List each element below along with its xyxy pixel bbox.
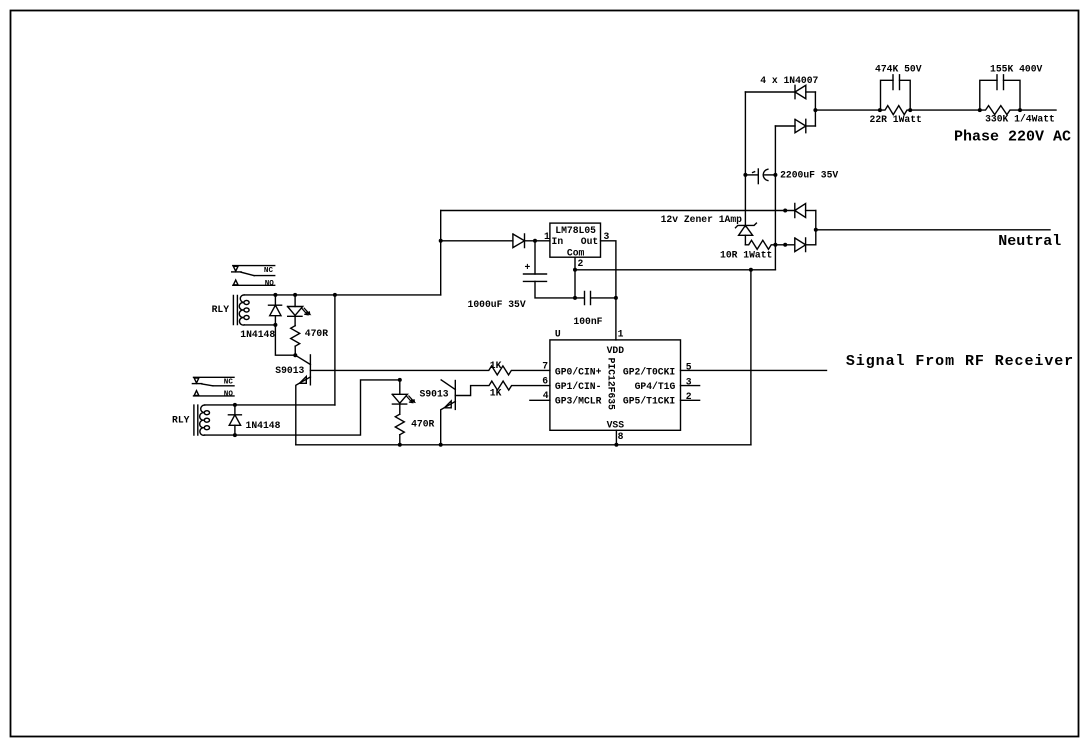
- svg-text:470R: 470R: [411, 419, 434, 430]
- svg-text:3: 3: [604, 231, 610, 242]
- svg-text:4 x 1N4007: 4 x 1N4007: [760, 75, 818, 86]
- svg-text:155K 400V: 155K 400V: [990, 63, 1043, 74]
- svg-text:U: U: [555, 328, 561, 339]
- svg-text:3: 3: [686, 377, 692, 388]
- svg-text:NC: NC: [224, 378, 234, 386]
- svg-text:S9013: S9013: [275, 365, 304, 376]
- svg-text:330K 1/4Watt: 330K 1/4Watt: [985, 113, 1055, 124]
- svg-text:NO: NO: [265, 280, 275, 288]
- svg-text:NC: NC: [264, 267, 274, 275]
- svg-text:8: 8: [618, 431, 624, 442]
- svg-text:+: +: [525, 262, 531, 273]
- svg-text:7: 7: [542, 361, 548, 372]
- svg-text:RLY: RLY: [172, 415, 190, 426]
- svg-text:PIC12F635: PIC12F635: [605, 358, 616, 411]
- svg-text:VSS: VSS: [607, 419, 625, 430]
- svg-text:1: 1: [544, 231, 550, 242]
- svg-text:Signal From RF Receiver: Signal From RF Receiver: [846, 353, 1074, 370]
- svg-text:LM78L05: LM78L05: [555, 225, 596, 236]
- svg-text:2: 2: [578, 258, 584, 269]
- svg-text:6: 6: [542, 376, 548, 387]
- svg-text:GP3/MCLR: GP3/MCLR: [555, 396, 602, 407]
- svg-text:NO: NO: [224, 391, 234, 399]
- svg-text:RLY: RLY: [212, 304, 230, 315]
- svg-text:S9013: S9013: [420, 388, 449, 399]
- svg-text:Out: Out: [581, 236, 598, 247]
- svg-text:GP4/T1G: GP4/T1G: [635, 381, 676, 392]
- svg-text:In: In: [552, 236, 564, 247]
- svg-text:2: 2: [686, 391, 692, 402]
- svg-text:Com: Com: [567, 247, 585, 258]
- svg-text:1000uF 35V: 1000uF 35V: [468, 299, 526, 310]
- svg-text:1: 1: [618, 328, 624, 339]
- svg-text:Neutral: Neutral: [998, 233, 1061, 250]
- svg-text:GP2/T0CKI: GP2/T0CKI: [623, 367, 676, 378]
- svg-text:Phase 220V AC: Phase 220V AC: [954, 128, 1071, 145]
- svg-text:1N4148: 1N4148: [240, 329, 275, 340]
- svg-text:1K: 1K: [490, 360, 502, 371]
- svg-text:22R 1Watt: 22R 1Watt: [870, 114, 922, 125]
- svg-text:GP5/T1CKI: GP5/T1CKI: [623, 396, 676, 407]
- svg-text:12v Zener 1Amp: 12v Zener 1Amp: [661, 214, 743, 225]
- svg-text:470R: 470R: [305, 328, 328, 339]
- svg-text:10R 1Watt: 10R 1Watt: [720, 249, 772, 260]
- svg-text:1N4148: 1N4148: [246, 420, 281, 431]
- svg-text:1K: 1K: [490, 387, 502, 398]
- svg-text:474K 50V: 474K 50V: [875, 63, 922, 74]
- svg-text:2200uF 35V: 2200uF 35V: [780, 170, 838, 181]
- svg-text:VDD: VDD: [607, 345, 625, 356]
- svg-text:4: 4: [543, 390, 549, 401]
- svg-text:100nF: 100nF: [573, 316, 602, 327]
- svg-text:GP1/CIN-: GP1/CIN-: [555, 381, 602, 392]
- svg-text:5: 5: [686, 362, 692, 373]
- svg-text:GP0/CIN+: GP0/CIN+: [555, 367, 602, 378]
